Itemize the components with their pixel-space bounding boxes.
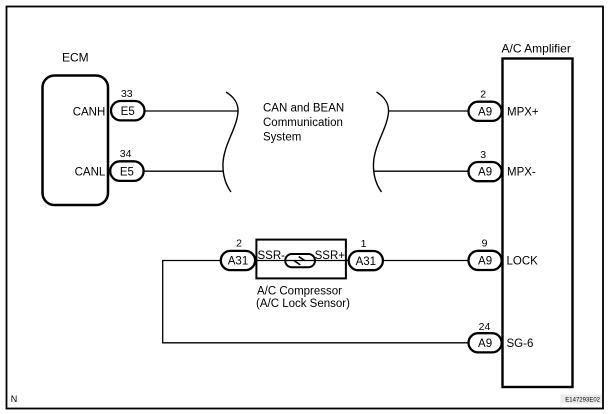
svg-text:(A/C Lock Sensor): (A/C Lock Sensor)	[256, 298, 350, 310]
svg-text:A9: A9	[478, 256, 492, 268]
svg-text:N: N	[11, 394, 17, 404]
svg-text:E5: E5	[120, 166, 134, 178]
svg-text:E147293E02: E147293E02	[565, 398, 600, 404]
svg-text:9: 9	[482, 238, 488, 250]
svg-text:3: 3	[480, 149, 486, 161]
svg-text:SG-6: SG-6	[507, 338, 534, 350]
svg-text:E5: E5	[121, 106, 135, 118]
svg-text:A9: A9	[478, 338, 492, 350]
svg-text:MPX-: MPX-	[507, 167, 536, 179]
svg-text:A31: A31	[356, 256, 376, 268]
svg-text:33: 33	[121, 88, 133, 100]
svg-text:CANH: CANH	[73, 106, 106, 118]
svg-text:24: 24	[479, 321, 491, 333]
svg-text:LOCK: LOCK	[507, 256, 539, 268]
svg-text:CANL: CANL	[75, 167, 106, 179]
svg-text:ECM: ECM	[62, 50, 89, 64]
svg-text:MPX+: MPX+	[507, 107, 539, 119]
svg-text:A31: A31	[228, 256, 248, 268]
svg-text:A9: A9	[478, 167, 492, 179]
svg-text:34: 34	[120, 148, 132, 160]
svg-text:1: 1	[361, 238, 367, 250]
svg-text:SSR-: SSR-	[258, 250, 286, 262]
svg-text:2: 2	[236, 238, 242, 250]
svg-text:A9: A9	[478, 107, 492, 119]
svg-text:System: System	[263, 132, 301, 144]
svg-text:A/C Amplifier: A/C Amplifier	[502, 42, 571, 56]
svg-text:Communication: Communication	[263, 117, 343, 129]
svg-text:2: 2	[480, 89, 486, 101]
svg-text:CAN and BEAN: CAN and BEAN	[263, 103, 344, 115]
svg-text:A/C Compressor: A/C Compressor	[257, 286, 342, 298]
svg-text:SSR+: SSR+	[315, 250, 346, 262]
